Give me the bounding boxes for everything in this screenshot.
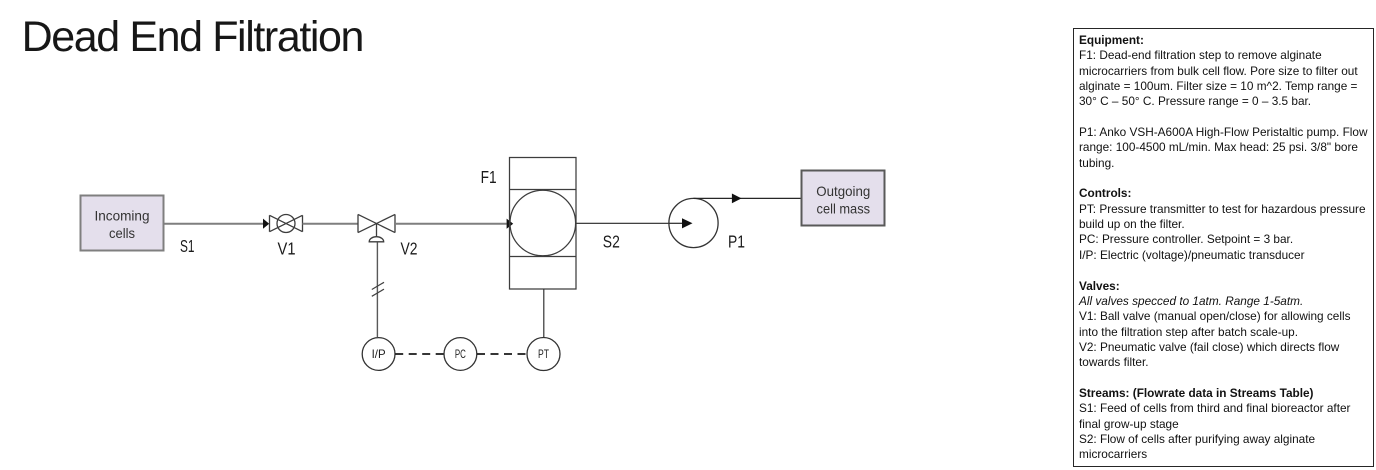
svg-text:cell mass: cell mass: [817, 200, 871, 216]
valve V2 (pneumatic, fail close): [358, 214, 395, 241]
svg-text:S2: S2: [603, 232, 620, 252]
flow arrow on P1 outlet: [732, 194, 742, 204]
valve V1 (ball valve): [270, 215, 303, 233]
notes panel: [1073, 28, 1374, 468]
svg-text:V1: V1: [278, 239, 296, 259]
svg-text:V2: V2: [401, 239, 418, 259]
instrument I/P (transducer): [362, 338, 395, 371]
signal break slashes on V2 wire: [372, 282, 384, 296]
svg-text:PT: PT: [538, 347, 549, 361]
flow arrow into F1: [507, 219, 514, 229]
signal wire: V2 actuator down to I/P: [376, 242, 378, 337]
svg-text:Outgoing: Outgoing: [816, 183, 870, 199]
svg-text:cells: cells: [109, 225, 135, 241]
title Dead End Filtration: [22, 16, 363, 59]
svg-text:P1: P1: [728, 232, 745, 252]
pump P1: [669, 198, 718, 247]
wire pipe: V2 to F1: [395, 223, 507, 225]
wire pipe: P1 top to Outgoing box: [694, 197, 802, 199]
svg-text:F1: F1: [481, 167, 497, 187]
wire S1 pipe: Incoming cells to V1: [164, 223, 264, 225]
filter F1 body: [510, 158, 577, 290]
dashed signal wire: I/P to PC: [395, 353, 444, 355]
process box Incoming cells: [81, 196, 164, 251]
dashed signal wire: PC to PT: [477, 353, 527, 355]
instrument PC (pressure controller): [444, 338, 477, 371]
instrument PT (pressure transmitter): [527, 338, 560, 371]
svg-text:PC: PC: [455, 347, 466, 361]
svg-text:Incoming: Incoming: [95, 208, 150, 224]
svg-text:S1: S1: [180, 236, 195, 256]
process box Outgoing cell mass: [802, 171, 885, 226]
svg-text:I/P: I/P: [372, 347, 386, 361]
wire pipe: V1 to V2: [303, 223, 359, 225]
wire S2 pipe: F1 to P1: [577, 222, 670, 224]
flow arrow into V1: [263, 219, 269, 229]
signal wire: F1 bottom to PT: [543, 289, 545, 337]
